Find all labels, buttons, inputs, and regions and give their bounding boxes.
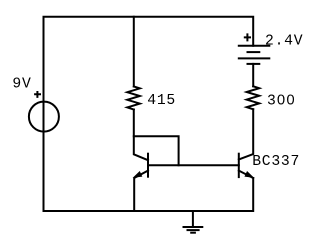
transistor Q2 base bar (238, 154, 240, 177)
Q1 emitter arrow (134, 172, 142, 177)
svg-text:300: 300 (267, 93, 296, 109)
svg-text:BC337: BC337 (252, 154, 300, 170)
battery U1 plate long top (239, 45, 269, 47)
wire top rail to resistor R1 (133, 17, 135, 87)
transistor Q1 emitter with wire to bottom rail (134, 171, 148, 211)
wire collector-base tie of Q1 (134, 136, 179, 165)
battery U1 plate short (248, 51, 260, 53)
wire R2 to Q2 collector (239, 109, 253, 159)
ground bar 3 (191, 232, 195, 234)
svg-text:2.4V: 2.4V (265, 34, 303, 50)
wire main loop: top rail, left rail, bottom rail, Q2 emitter lead, battery top lead (44, 17, 254, 211)
battery plus sign (245, 34, 250, 40)
svg-text:415: 415 (147, 93, 176, 109)
ground stem (192, 211, 194, 227)
V1 plus sign (35, 92, 40, 97)
resistor R2 zigzag (247, 86, 260, 109)
wire base rail Q1 to Q2 (148, 164, 239, 166)
transistor Q2 emitter diagonal (239, 171, 253, 178)
wire battery to resistor R2 (252, 64, 254, 86)
resistor R1 zigzag (127, 87, 140, 110)
wire R1 to Q1 collector (134, 110, 148, 161)
ground bar 1 (184, 226, 203, 228)
voltage source V1 circle (29, 102, 59, 132)
transistor Q1 base bar (147, 154, 149, 177)
Q2 emitter arrow (245, 172, 253, 177)
battery U1 plate long (239, 57, 269, 59)
ground bar 2 (188, 229, 199, 231)
battery U1 plate short bottom (248, 63, 260, 65)
svg-text:9V: 9V (12, 77, 31, 93)
